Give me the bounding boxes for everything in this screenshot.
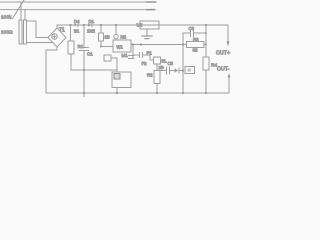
- node A junction: [83, 69, 85, 71]
- wire lamp lead: [115, 25, 117, 40]
- diode D3: [175, 68, 180, 73]
- relay J box: [112, 72, 131, 88]
- wire bridge DC- route to bottom rail: [46, 47, 57, 93]
- wire R2v to bottom rail: [156, 84, 158, 94]
- wire OUT+ drop: [227, 25, 229, 42]
- component C2 small box: [104, 55, 111, 61]
- diode D1: [88, 23, 92, 27]
- node R2v bottom: [156, 92, 158, 94]
- wire AC line N: [0, 9, 155, 11]
- transformer T secondary winding: [24, 20, 27, 44]
- wire node A to relay branch: [84, 69, 117, 71]
- resistor R1 lead: [70, 25, 72, 41]
- switch S blade: [13, 0, 25, 19]
- wire top DC rail: [57, 24, 228, 26]
- svg-text:OUT-: OUT-: [217, 67, 230, 73]
- node B junction: [182, 69, 184, 71]
- wire AC line N end tip: [147, 9, 155, 11]
- wire relay to bottom rail: [116, 88, 118, 94]
- node R4 bottom: [205, 92, 207, 94]
- component F box: [154, 57, 161, 64]
- node right net R3: [205, 44, 207, 46]
- wire right vertical net: [205, 25, 207, 57]
- wire AC line L: [0, 1, 156, 3]
- wire drop from line L to switch: [20, 2, 22, 20]
- capacitor C2 lead: [132, 45, 134, 56]
- node C1 bottom: [83, 92, 85, 94]
- wire C5 to corner: [143, 55, 153, 60]
- capacitor C3: [191, 30, 194, 37]
- bridge rectifier inner circle: [52, 34, 58, 40]
- relay J coil mark: [114, 74, 120, 80]
- OUT- arrowhead: [228, 73, 231, 78]
- capacitor C1: [80, 48, 89, 51]
- wire diode to node B: [179, 70, 183, 72]
- wire U3 output: [131, 44, 187, 46]
- resistor R4: [203, 57, 209, 70]
- bridge rectifier T1 diamond: [48, 28, 66, 47]
- wire AC line L end tip: [147, 1, 156, 3]
- node mid at lower wire: [182, 43, 184, 45]
- wire secondary bottom to bridge: [27, 42, 54, 44]
- wire lower chain: [157, 70, 175, 72]
- wire R2 to box U3 input: [101, 41, 113, 47]
- capacitor C5 lead from C2 node: [132, 55, 134, 59]
- wire F to R2v: [156, 64, 158, 71]
- regulator U2 box: [140, 21, 159, 29]
- node C2 branch: [132, 43, 134, 45]
- node at R2 top: [100, 24, 102, 26]
- wire R3 to right net: [204, 44, 206, 46]
- capacitor C2: [129, 56, 135, 59]
- svg-text:W1: W1: [117, 45, 124, 50]
- wire R4 to bottom rail: [205, 70, 207, 93]
- wire U2 ground pin: [146, 29, 148, 36]
- wire secondary top to bridge AC input: [27, 21, 49, 38]
- svg-text:R2: R2: [147, 73, 153, 78]
- node right net C3: [205, 32, 207, 34]
- svg-text:2B: 2B: [159, 65, 164, 70]
- svg-text:U2: U2: [137, 23, 143, 28]
- node relay bottom: [116, 92, 118, 94]
- capacitor C5: [140, 53, 143, 58]
- resistor R5 inner mark: [188, 69, 192, 72]
- lamp HL: [114, 34, 118, 38]
- wire R1 bottom to node A: [71, 54, 84, 70]
- node P1 branch: [140, 43, 142, 45]
- node at lamp top: [115, 24, 117, 26]
- svg-text:B1: B1: [74, 29, 80, 34]
- svg-text:BL: BL: [162, 59, 168, 64]
- svg-text:D1: D1: [89, 19, 95, 24]
- node right net top: [205, 24, 207, 26]
- svg-text:N2: N2: [121, 35, 127, 40]
- wire to capacitor C5: [133, 54, 139, 56]
- svg-text:100Ω: 100Ω: [1, 30, 13, 36]
- wire small box to relay coil: [111, 58, 117, 72]
- node mid at bottom rail: [182, 92, 184, 94]
- svg-text:R1: R1: [78, 44, 84, 49]
- capacitor C4: [167, 67, 170, 74]
- svg-text:C3: C3: [189, 26, 195, 31]
- resistor R5: [185, 67, 195, 74]
- ground: [142, 36, 152, 39]
- svg-text:F2: F2: [142, 61, 148, 66]
- resistor R2v: [154, 71, 160, 84]
- capacitor C1 bottom lead: [83, 51, 85, 94]
- node at C1 top: [83, 24, 85, 26]
- resistor R2 lead: [100, 25, 102, 33]
- wire stub below rail at C1: [83, 93, 85, 97]
- OUT+ arrowhead: [227, 42, 230, 47]
- svg-text:OUT+: OUT+: [216, 51, 230, 57]
- svg-text:C5: C5: [168, 61, 174, 66]
- wire bottom rail: [46, 92, 229, 94]
- transformer T primary winding: [19, 20, 22, 44]
- wire bridge DC+ stub: [56, 25, 58, 28]
- wire OUT- to bottom rail: [228, 78, 230, 94]
- capacitor C1 top lead: [83, 25, 85, 47]
- capacitor C3 branch wire: [183, 32, 206, 34]
- node at R1 top: [69, 24, 71, 26]
- svg-text:P1: P1: [147, 51, 153, 56]
- svg-text:1N2: 1N2: [87, 29, 95, 34]
- svg-text:2B: 2B: [105, 35, 110, 40]
- bridge rectifier plus mark: [53, 35, 56, 38]
- svg-text:100k: 100k: [1, 15, 12, 21]
- svg-text:C1: C1: [87, 52, 93, 57]
- svg-text:D4: D4: [74, 19, 80, 24]
- node at box input: [100, 46, 102, 48]
- resistor R1: [68, 41, 74, 54]
- wire mid vertical net: [182, 33, 184, 93]
- resistor R2: [99, 33, 104, 41]
- IC U3 box: [113, 40, 131, 52]
- svg-text:R3: R3: [193, 37, 199, 42]
- wire drop from line N to switch: [24, 10, 26, 21]
- resistor R3: [187, 42, 205, 48]
- diode D4: [75, 23, 79, 26]
- svg-text:M1: M1: [122, 53, 129, 58]
- svg-text:02: 02: [193, 48, 199, 53]
- svg-text:T1: T1: [59, 28, 65, 34]
